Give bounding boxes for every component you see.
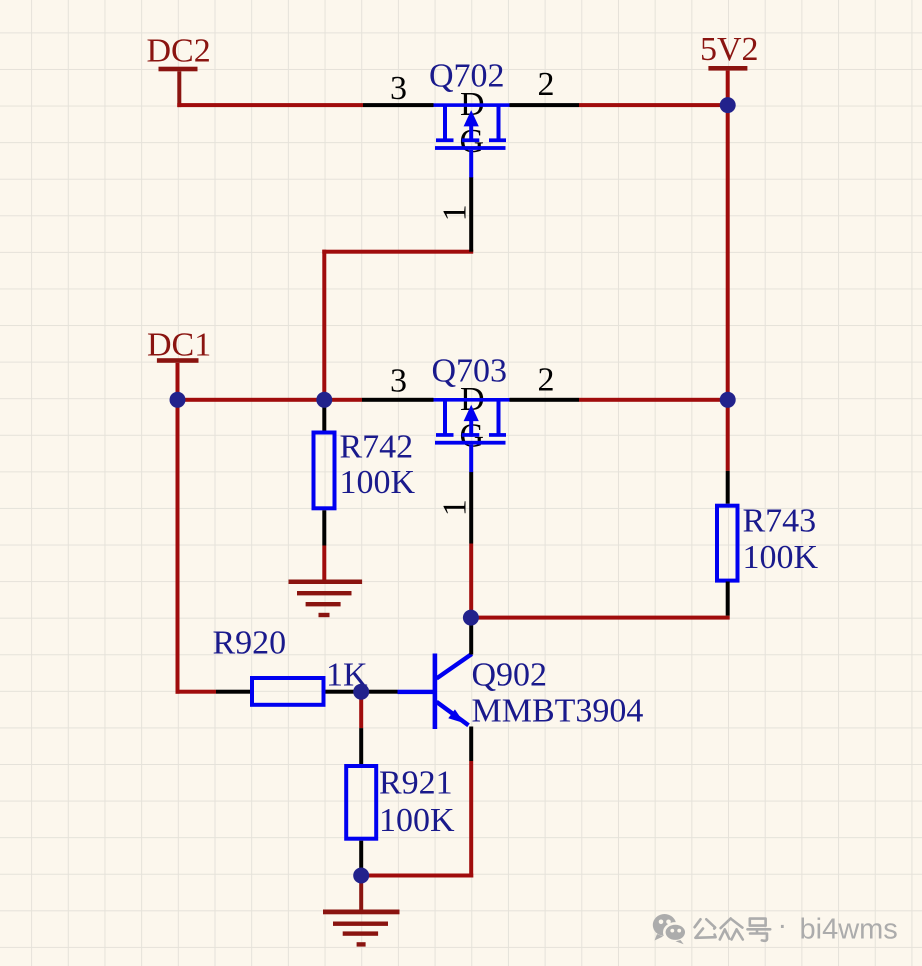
svg-text:100K: 100K — [379, 802, 455, 839]
wire top rail left (DC2 to Q702 pin 3) — [177, 103, 363, 107]
svg-text:MMBT3904: MMBT3904 — [472, 693, 644, 730]
resistor R920 pin right — [326, 690, 398, 694]
svg-text:1: 1 — [437, 499, 474, 516]
Q702 pin 1 stub — [469, 177, 473, 252]
junction dot R742 top — [316, 392, 332, 408]
wire mid rail right (Q703 pin 2 to R743 column) — [579, 398, 730, 402]
resistor R743 pin top — [726, 471, 730, 504]
resistor R921 pin bottom — [359, 841, 363, 874]
wire R920 row stub from DC1 column — [176, 690, 217, 694]
svg-text:DC2: DC2 — [147, 33, 211, 70]
wire bottom row (R921 bottom to emitter column) — [359, 874, 473, 878]
junction dot DC1 rail — [170, 392, 186, 408]
svg-text:2: 2 — [538, 362, 555, 399]
wire 5V2 column down to R743 — [726, 103, 730, 471]
svg-text:R743: R743 — [743, 503, 817, 540]
svg-text:Q703: Q703 — [432, 353, 508, 390]
svg-text:3: 3 — [390, 70, 407, 107]
svg-text:Q702: Q702 — [429, 58, 505, 95]
mosfet Q702 — [434, 103, 510, 177]
junction dot bottom node — [353, 868, 369, 884]
wire mid rail (DC1 to Q703 pin 3) — [176, 398, 363, 402]
junction dot R920 base node — [353, 684, 369, 700]
Q702 pin 2 stub — [510, 103, 580, 107]
junction dot gate node — [463, 610, 479, 626]
svg-text:bi4wms: bi4wms — [800, 914, 898, 946]
Q703 pin 3 stub — [362, 398, 434, 402]
power port DC2 — [147, 33, 211, 108]
svg-text:1: 1 — [437, 204, 474, 221]
watermark wechat icon — [653, 914, 687, 944]
Q702 pin 3 stub — [363, 103, 434, 107]
svg-text:DC1: DC1 — [147, 327, 211, 364]
wire Q702 gate corner horizontal — [322, 250, 473, 254]
Q902 collector pin — [469, 618, 473, 655]
resistor R920 body — [252, 678, 324, 705]
svg-text:2: 2 — [538, 66, 555, 103]
resistor R921 pin top — [359, 728, 363, 764]
svg-text:R921: R921 — [379, 765, 453, 802]
wire ground stem below R921 — [359, 878, 363, 911]
ground below R742 — [289, 580, 363, 618]
resistor R742 body — [314, 433, 335, 509]
Q703 pin 2 stub — [510, 398, 580, 402]
wire emitter column red — [469, 761, 473, 878]
resistor R742 pin bottom — [322, 510, 326, 545]
wire DC1 column down to R920 row — [176, 400, 180, 694]
svg-text:100K: 100K — [340, 464, 416, 501]
power port 5V2 — [700, 31, 759, 107]
resistor R742 pin top — [322, 402, 326, 431]
svg-text:R920: R920 — [213, 625, 287, 662]
wire R921 top red segment — [359, 694, 363, 728]
svg-text:100K: 100K — [743, 539, 819, 576]
wire node row (Q703 gate node to R743 bottom) — [469, 616, 730, 620]
Q902 emitter pin — [469, 727, 473, 762]
svg-text:R742: R742 — [340, 429, 414, 466]
power port DC1 — [147, 327, 211, 400]
transistor Q902 — [398, 654, 472, 730]
ground below R921 — [323, 910, 400, 947]
junction dot R743 column mid rail — [720, 392, 736, 408]
wire Q703 gate red segment — [469, 544, 473, 618]
wire R742 bottom to ground — [322, 546, 326, 580]
resistor R921 body — [346, 766, 376, 839]
svg-text:3: 3 — [390, 363, 407, 400]
junction dot 5V2 top rail — [720, 97, 736, 113]
svg-text:·: · — [778, 910, 788, 942]
Q703 pin 1 stub — [469, 472, 473, 544]
mosfet Q703 — [434, 398, 510, 472]
svg-text:5V2: 5V2 — [700, 31, 759, 68]
resistor R920 pin left — [216, 690, 250, 694]
wire Q702 gate corner vertical down to DC1 rail — [322, 250, 326, 402]
watermark text 公众号 — [695, 918, 771, 940]
wire top rail right (Q702 pin 2 to 5V2) — [579, 103, 730, 107]
resistor R743 pin bottom — [726, 582, 730, 616]
resistor R743 body — [717, 506, 738, 581]
svg-text:Q902: Q902 — [472, 657, 548, 694]
